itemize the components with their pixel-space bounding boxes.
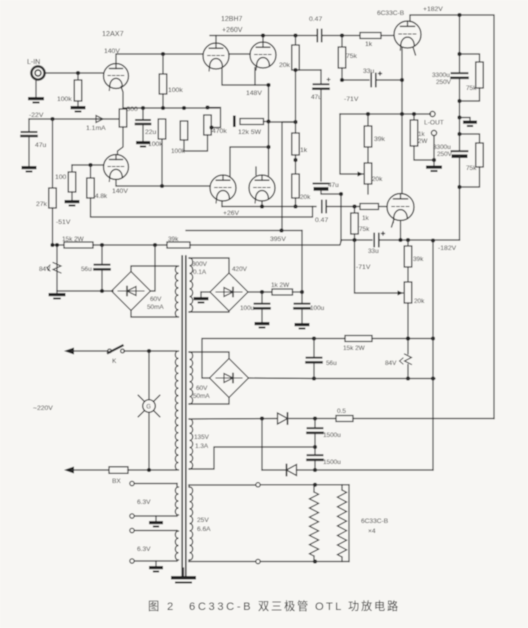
connector heater plug bottom (256, 559, 313, 563)
wire V1b cathode to driver grids (116, 180, 210, 187)
heater tick V5 (392, 219, 395, 227)
winding bias 60V left upper (175, 266, 178, 317)
label 135V 1.3A (194, 434, 210, 450)
connector L-OUT lower terminal (431, 130, 436, 160)
wire V5 cathode down (398, 221, 402, 243)
svg-text:27k: 27k (36, 201, 48, 208)
fuse BX (109, 467, 128, 485)
wire doubler mid (313, 433, 317, 454)
resistor R4 27k (36, 188, 56, 208)
wire bottom bus (262, 469, 433, 471)
wire 470k bottom to y151 (184, 135, 208, 151)
wire -22V to 27k (50, 117, 54, 188)
capacitor C6 47u lower (314, 182, 340, 191)
svg-text:56u: 56u (326, 360, 337, 367)
wire 20k to cathode line (293, 198, 297, 209)
node heater bottom (313, 559, 317, 563)
wire V5 plate up to rail (401, 114, 403, 194)
svg-text:22u: 22u (145, 129, 157, 136)
current arrow 1.1mA (86, 116, 106, 133)
label 6C33C-B x4 (361, 518, 389, 535)
wire switch to primary (124, 349, 177, 353)
connector L-OUT terminal (424, 111, 444, 126)
node +182V corner (457, 13, 461, 17)
svg-text:1k 2W: 1k 2W (271, 282, 290, 289)
lamp G indicator (138, 351, 160, 470)
heater element left (309, 485, 318, 562)
svg-text:1500u: 1500u (323, 432, 341, 439)
wire 135V winding top (189, 416, 277, 420)
wire B3 left to 15k rail (202, 339, 314, 379)
svg-text:250V: 250V (437, 151, 453, 158)
wire V4 plate to +182V (410, 15, 460, 22)
label 420V (232, 266, 248, 273)
resistor R20 75k bleeder lower (460, 134, 484, 187)
wire 0.5 to speaker line (353, 418, 494, 420)
tube V3b 12BH7 lower-right (249, 175, 275, 203)
wire D1 to 0.5 (289, 416, 336, 420)
svg-text:1k: 1k (300, 147, 308, 154)
label 148V (246, 90, 262, 97)
heater tick V4 (413, 47, 416, 55)
svg-text:20k: 20k (300, 194, 311, 201)
label -71V upper (344, 96, 359, 103)
arrow mains top (64, 348, 108, 355)
svg-text:-71V: -71V (356, 264, 371, 271)
wire C10 down (457, 157, 461, 241)
label +182V (423, 6, 443, 13)
capacitor C3 coupling bar at 12k 5W (233, 116, 236, 128)
svg-text:250V: 250V (436, 79, 452, 86)
resistor R19 75k bleeder (460, 54, 484, 101)
svg-text:6.3V: 6.3V (137, 546, 151, 553)
resistor R23 39k (404, 240, 424, 267)
svg-text:6C33C-B: 6C33C-B (377, 10, 405, 17)
ground below C14 (295, 323, 310, 329)
svg-text:15k 2W: 15k 2W (343, 345, 366, 352)
capacitor C8 33u (363, 68, 382, 87)
terminal 6.3V a2 (130, 514, 177, 518)
capacitor C7 0.47 lower coupling (315, 201, 328, 225)
wire C6 to pot bottom node (321, 191, 343, 197)
wire C9 to node (457, 78, 461, 117)
wire rail to pot wiper (340, 114, 363, 177)
node plate-load junction (161, 52, 165, 56)
wire 20k bottom to 47u chain (296, 69, 322, 71)
svg-text:84V: 84V (39, 266, 51, 273)
wire -84V rail left (50, 243, 64, 247)
rectifier bridge B3 60V 50mA (210, 359, 249, 398)
svg-text:L-IN: L-IN (27, 59, 40, 66)
label B1 60V 50mA (147, 296, 164, 311)
tube V2a 12BH7 left (203, 43, 229, 71)
wire 25V top to plug (189, 485, 256, 487)
wire V2a cathode (222, 69, 269, 86)
label 12AX7 (102, 29, 124, 38)
wire right drop x433 (432, 241, 434, 471)
svg-text:50mA: 50mA (193, 393, 210, 400)
svg-text:+26V: +26V (223, 210, 240, 217)
wire plate branch to V3a (230, 147, 269, 177)
wire column to C10 (457, 118, 461, 151)
wire V2b plate to +260V rail (262, 36, 264, 43)
svg-text:148V: 148V (246, 90, 262, 97)
svg-text:6.6A: 6.6A (197, 526, 211, 533)
wire 300V winding top (189, 258, 229, 273)
svg-text:~220V: ~220V (33, 405, 53, 412)
svg-text:K: K (112, 358, 117, 365)
wire 60V winding bottom (189, 398, 229, 405)
wire 25V bottom to plug (189, 560, 256, 562)
label 12BH7 (221, 16, 243, 23)
ground below L-IN (28, 80, 44, 104)
capacitor C2 22u cathode bypass (136, 108, 157, 141)
capacitor C4 0.47 coupling to V4 (309, 16, 322, 42)
svg-text:-71V: -71V (344, 96, 359, 103)
ground at output (426, 160, 442, 172)
node input grid junction (76, 71, 80, 75)
resistor R16 39k feedback (364, 114, 385, 147)
wire heater box bottom (315, 561, 349, 563)
svg-text:3300u: 3300u (432, 72, 450, 79)
connector L-IN input jack (27, 59, 45, 80)
wire 20k to node (293, 68, 297, 122)
wire bias lower bus (314, 376, 435, 380)
svg-text:20k: 20k (279, 62, 291, 69)
svg-text:39k: 39k (168, 236, 179, 243)
wire +182V column upper (457, 15, 461, 72)
wire V4 cathode down (400, 48, 404, 115)
svg-text:×4: ×4 (368, 528, 376, 535)
svg-text:1500u: 1500u (323, 459, 341, 466)
arrow mains bottom (64, 467, 109, 474)
label -71V lower (356, 264, 371, 271)
resistor R26 39k horizontal (167, 236, 190, 248)
ground 6.3V b (149, 561, 163, 572)
wire V2a plate to +260V rail (215, 36, 217, 44)
svg-text:470k: 470k (212, 128, 227, 135)
wire B2 minus to ground (201, 292, 210, 297)
winding heater 6.3V lower (175, 531, 178, 560)
resistor R3 300 cathode of V1a (119, 106, 138, 127)
wire 470k tap loop (208, 108, 221, 130)
capacitor C9 3300u 250V (432, 72, 468, 86)
wire R3 to V1b plate (118, 127, 124, 155)
wire 300V winding bottom (189, 311, 229, 312)
connector heater plug top (256, 483, 313, 487)
resistor R12 20k top (279, 36, 299, 71)
svg-text:6C33C-B: 6C33C-B (361, 518, 389, 525)
svg-text:60V: 60V (150, 296, 162, 303)
svg-text:100u: 100u (240, 305, 255, 312)
svg-text:100u: 100u (310, 305, 325, 312)
svg-text:2: 2 (167, 601, 173, 613)
tube V5 6C33C-B lower (387, 194, 414, 223)
ground below C1 (22, 166, 37, 172)
svg-text:1k: 1k (365, 41, 373, 48)
wire C17 to bottom bus (313, 460, 317, 472)
svg-text:60V: 60V (196, 385, 208, 392)
winding secondary 135V (190, 419, 193, 469)
resistor R5 100 grid stopper (55, 165, 76, 192)
ground tap on rail (457, 115, 477, 126)
wire C11 to -182V corner (379, 238, 460, 243)
wire B3 right out (249, 376, 317, 380)
svg-text:75k: 75k (466, 165, 477, 172)
resistor R13 1k (292, 122, 308, 155)
wire R18 to ground node (414, 146, 436, 162)
capacitor C14 100u (295, 292, 325, 323)
ground below C2 (136, 141, 150, 147)
wire fuse to primary (128, 468, 177, 472)
svg-text:100k: 100k (168, 87, 183, 94)
resistor R11 1k grid stopper V4 (360, 33, 381, 49)
resistor R8 100k divider (171, 121, 188, 155)
svg-text:75k: 75k (346, 53, 358, 60)
resistor R15 75k V4 grid (338, 36, 357, 81)
wire winding bottom to mid (189, 447, 315, 469)
wire B1 AC top (131, 266, 177, 272)
ground B2 (194, 297, 209, 303)
svg-text:100: 100 (55, 174, 67, 181)
svg-text:G: G (146, 405, 151, 411)
capacitor C5 47u upper (311, 70, 330, 101)
wire R8 bottom to y151 (183, 140, 185, 151)
svg-text:1.1mA: 1.1mA (86, 125, 106, 132)
wire V2 cathode to V3b plate (266, 83, 270, 176)
svg-text:0.47: 0.47 (309, 16, 322, 23)
svg-text:33u: 33u (363, 68, 375, 75)
resistor R6 4.8k feedback (87, 165, 108, 200)
label 140V at V1a plate (104, 48, 120, 55)
node heater top (313, 483, 317, 487)
wire pot bottom (367, 184, 369, 194)
label ~220V (33, 405, 53, 412)
wire +182V to right edge line (460, 15, 495, 419)
svg-text:50mA: 50mA (147, 304, 164, 311)
winding primary 220V (175, 351, 178, 470)
wire x282 395V feed (282, 122, 296, 231)
svg-text:OTL: OTL (315, 601, 344, 613)
svg-text:6.3V: 6.3V (137, 499, 151, 506)
wire feedback drop x341 (340, 194, 342, 242)
potentiometer R17 20k (364, 147, 383, 184)
wire cathode bus y108 (123, 107, 219, 109)
tube V2b 12BH7 right (250, 42, 276, 70)
resistor R18 1k 2W (410, 114, 427, 146)
winding secondary 300V (190, 258, 193, 312)
svg-text:140V: 140V (112, 188, 128, 195)
svg-text:47u: 47u (328, 182, 339, 189)
switch K (108, 346, 125, 366)
svg-text:0.5: 0.5 (337, 408, 346, 415)
wire B2 plus out (248, 290, 272, 294)
capacitor C11 33u lower (368, 232, 385, 255)
wire V2b cathode (254, 68, 256, 86)
label B3 60V 50mA (193, 385, 210, 400)
wire -71V node (340, 78, 369, 82)
potentiometer R24 20k bias (404, 267, 425, 305)
resistor R25 15k 2W (62, 236, 93, 248)
wire -22V feed (29, 112, 119, 119)
wire grid bus between tubes (229, 53, 250, 55)
resistor R2 100k plate load of V1a (159, 54, 183, 108)
wire rail to corner (372, 336, 435, 340)
svg-text:33u: 33u (368, 248, 379, 255)
resistor R10 12k 5W (238, 119, 264, 137)
resistor R29 0.5 (336, 408, 353, 422)
terminal 6.3V a1 (130, 481, 177, 487)
ground below C13 (255, 322, 270, 328)
svg-text:6C33C-B: 6C33C-B (189, 601, 253, 613)
wire cathode node to divider (269, 120, 298, 124)
terminal 6.3V b2 (130, 559, 177, 563)
svg-text:+182V: +182V (423, 6, 443, 13)
svg-text:100k: 100k (148, 141, 163, 148)
resistor R9 470k with tap (204, 115, 228, 135)
label 300V 0.1A (192, 261, 208, 276)
wire V3 cathode bus +26V (222, 201, 316, 209)
wire 1k to V5 grid (379, 206, 388, 208)
ground transformer core (171, 568, 196, 583)
svg-text:-51V: -51V (56, 219, 71, 226)
resistor R22 75k V5 grid leak (351, 207, 370, 241)
tube V3a 12BH7 lower-left (210, 175, 236, 203)
wire AC drop x262 (261, 419, 263, 471)
winding heater 6.3V upper (175, 487, 178, 515)
svg-text:15k 2W: 15k 2W (62, 236, 85, 243)
wire V1a plate to 12BH7 grids (116, 54, 203, 64)
wire V1a cathode down (121, 87, 123, 109)
ground bias left (49, 291, 66, 299)
diode D1 (278, 413, 288, 424)
label -182V (438, 245, 457, 252)
rectifier bridge B1 60V 50mA (112, 272, 151, 311)
svg-text:395V: 395V (270, 236, 286, 243)
wire -71V drop to pot2 wiper (355, 240, 404, 296)
svg-text:0.1A: 0.1A (193, 269, 207, 276)
svg-text:12BH7: 12BH7 (221, 16, 243, 23)
svg-text:双三极管: 双三极管 (258, 599, 310, 613)
diode D2 (287, 465, 297, 476)
svg-text:300: 300 (127, 106, 139, 113)
svg-text:47u: 47u (35, 142, 47, 149)
wire bias ground bus (57, 289, 113, 293)
svg-text:20k: 20k (372, 176, 383, 183)
label +26V (223, 210, 240, 217)
node R2 bottom (161, 106, 165, 110)
svg-text:+260V: +260V (222, 27, 243, 34)
svg-text:功放电路: 功放电路 (348, 599, 400, 613)
tube V1a 12AX7 upper triode (104, 64, 129, 91)
capacitor C17 1500u lower (308, 455, 342, 466)
label 25V 6.6A (197, 517, 211, 533)
transformer T1 core (182, 256, 186, 576)
svg-text:420V: 420V (232, 266, 248, 273)
heater element right (337, 485, 346, 562)
wire zener column (55, 243, 59, 291)
capacitor C12 56u bias filter (81, 245, 110, 291)
svg-text:12AX7: 12AX7 (102, 29, 124, 38)
wire 12k5W to V2 cathode column (264, 121, 269, 123)
winding secondary 60V lower (190, 352, 193, 404)
wire pot2 to rail (406, 303, 410, 341)
svg-text:39k: 39k (413, 256, 424, 263)
label 6.3V upper (137, 499, 151, 506)
wire 395V riser (279, 228, 302, 292)
wire C4 to 1k (322, 33, 360, 37)
wire heater box top (315, 484, 349, 486)
wire rail right to -182V (190, 241, 341, 245)
svg-text:25V: 25V (197, 517, 209, 524)
wire rail middle (93, 243, 167, 247)
svg-text:1.3A: 1.3A (195, 443, 209, 450)
svg-text:100k: 100k (57, 96, 72, 103)
wire 395V rail (186, 230, 302, 232)
svg-text:12k 5W: 12k 5W (238, 129, 262, 136)
wire +260V rail / grid bus (210, 33, 316, 37)
wire L-OUT rail (340, 112, 431, 116)
wire -182V bus (341, 238, 372, 242)
svg-text:BX: BX (112, 478, 121, 485)
capacitor C15 56u lower (307, 339, 338, 379)
svg-text:84V: 84V (385, 360, 397, 367)
wire L-IN to V1a grid (45, 72, 104, 74)
node 100k bottom on grid bus (160, 184, 164, 188)
wire V1b grid (72, 163, 104, 167)
ground below R5 (65, 192, 80, 206)
grid tick V3b (255, 167, 257, 175)
wire feedback bus y217 (91, 198, 313, 217)
svg-text:-182V: -182V (438, 245, 457, 252)
svg-text:75k: 75k (466, 85, 477, 92)
resistor R14 20k (292, 174, 311, 201)
svg-text:2W: 2W (418, 138, 427, 145)
svg-text:75k: 75k (359, 226, 370, 233)
resistor R21 1k grid stopper V5 (360, 204, 379, 223)
svg-text:1k: 1k (418, 131, 425, 138)
svg-text:3300u: 3300u (433, 144, 451, 151)
zener 84V SZ right (385, 339, 412, 381)
node 22u top (141, 106, 145, 110)
label +260V (222, 27, 243, 34)
svg-text:135V: 135V (194, 434, 210, 441)
svg-text:0.47: 0.47 (315, 217, 328, 224)
tube V4 6C33C-B upper (394, 21, 421, 50)
terminal 6.3V b1 (130, 528, 177, 532)
wire B1 minus out (151, 245, 156, 291)
svg-text:图: 图 (148, 600, 159, 613)
svg-text:39k: 39k (374, 136, 386, 143)
svg-text:-22V: -22V (29, 112, 44, 119)
capacitor C16 1500u (308, 419, 342, 440)
wire B1 AC bottom (131, 311, 177, 318)
resistor R28 15k 2W lower (312, 336, 372, 353)
svg-text:300V: 300V (192, 261, 208, 268)
label 140V at V1b (112, 188, 128, 195)
wire 1k to V4 grid (381, 35, 394, 37)
capacitor C13 100u (240, 292, 270, 322)
capacitor C1 47u on -22V (22, 119, 47, 166)
wire R27 to 395V node (293, 290, 305, 294)
svg-text:20k: 20k (414, 298, 425, 305)
rectifier bridge B2 300V (210, 273, 248, 311)
svg-text:56u: 56u (81, 266, 92, 273)
label 395V (270, 236, 286, 243)
svg-text:1k: 1k (362, 215, 370, 222)
zener 84V SZ left (39, 263, 61, 274)
resistor R1 100k grid leak (57, 73, 82, 106)
